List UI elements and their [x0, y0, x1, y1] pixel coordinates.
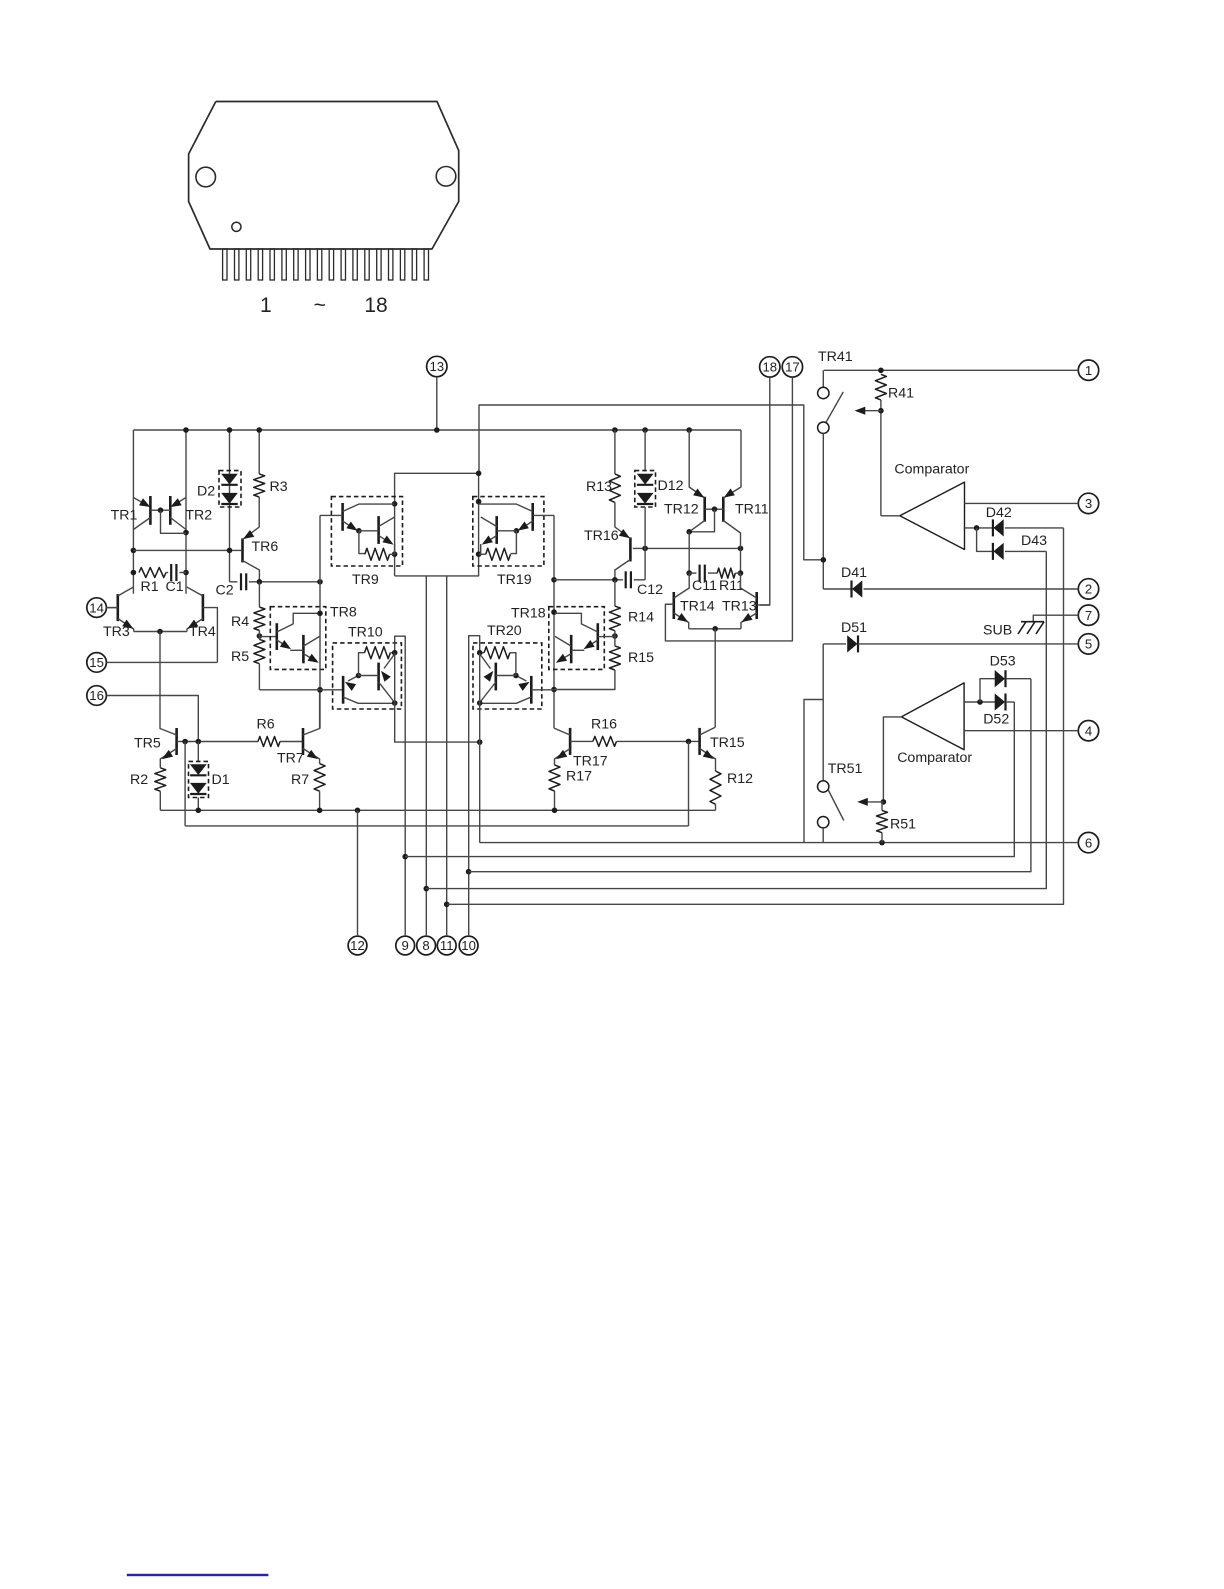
diode D52 — [964, 694, 1014, 711]
resistor R4 — [254, 607, 265, 631]
svg-text:5: 5 — [1085, 637, 1092, 652]
label TR5 — [134, 736, 161, 752]
svg-text:9: 9 — [402, 938, 409, 953]
svg-text:R4: R4 — [231, 614, 249, 630]
wire TR6 base line — [133, 549, 241, 551]
label TR1 — [111, 508, 138, 524]
transistor TR2 — [158, 496, 186, 533]
wire comparator2 input pin4 — [964, 730, 1078, 732]
svg-text:11: 11 — [440, 938, 454, 953]
label Comparator 2 — [897, 750, 972, 766]
resistor R5 — [254, 639, 265, 663]
resistor R15 — [609, 646, 620, 670]
svg-text:TR12: TR12 — [664, 502, 699, 518]
resistor R12 — [710, 771, 721, 810]
label D1 — [212, 772, 230, 788]
label R1 — [141, 579, 159, 595]
svg-text:6: 6 — [1085, 835, 1092, 850]
wire bottom rail — [160, 808, 715, 814]
label R17 — [566, 769, 592, 785]
resistor R1 — [139, 568, 166, 578]
svg-text:SUB: SUB — [983, 623, 1012, 639]
svg-text:17: 17 — [785, 360, 800, 375]
package index dot — [232, 222, 241, 231]
resistor R11 — [717, 568, 740, 578]
svg-text:TR10: TR10 — [348, 625, 383, 641]
wire R41 bottom node arrow — [856, 400, 900, 516]
wire pin6 riser jog — [804, 700, 823, 843]
label C12 — [637, 582, 663, 598]
label R16 — [591, 717, 617, 733]
svg-text:D12: D12 — [658, 478, 684, 494]
label C11 — [692, 578, 717, 594]
label Comparator 1 — [894, 462, 969, 478]
wire emitter tail TR3 TR4 — [134, 629, 187, 714]
diode D41 — [823, 581, 1078, 598]
svg-text:R14: R14 — [628, 610, 654, 626]
capacitor C12 — [554, 571, 631, 588]
op-amp comparator 2 — [901, 683, 964, 750]
svg-text:7: 7 — [1085, 608, 1092, 623]
label TR41 — [818, 349, 853, 365]
label R13 — [586, 479, 612, 495]
wire pin18 drop to TR13 base — [760, 377, 770, 605]
svg-text:R15: R15 — [628, 650, 654, 666]
wire pin7 to SUB ground — [1033, 615, 1078, 622]
switch TR41 — [818, 370, 844, 589]
resistor R51 — [877, 802, 888, 843]
wire TR11 collector drop — [738, 548, 744, 575]
wire comparator1 output pin3 — [965, 502, 1079, 504]
svg-text:R2: R2 — [130, 772, 148, 788]
svg-text:TR1: TR1 — [111, 508, 138, 524]
wire TR10 staple pin9 — [392, 636, 408, 936]
wire comparator2 apex to R51 — [858, 717, 901, 806]
transistor TR12 — [689, 430, 714, 532]
pin 10 — [459, 936, 478, 955]
wire pin16 lead — [106, 696, 198, 741]
diode D43 — [977, 528, 1047, 560]
pin 9 — [396, 936, 415, 955]
wire TR19-base column — [551, 515, 557, 728]
resistor R14 — [609, 580, 620, 631]
label R2 — [130, 772, 148, 788]
wire TR20 staple pin10 — [466, 636, 483, 936]
wire R7 to rail — [319, 791, 321, 810]
transistor TR3 — [106, 587, 133, 632]
resistor R2 — [155, 768, 166, 791]
pin 3 — [1078, 493, 1098, 513]
svg-text:1: 1 — [1085, 363, 1092, 378]
transistor TR7 — [303, 690, 320, 763]
svg-text:R3: R3 — [270, 479, 288, 495]
label TR12 — [664, 502, 699, 518]
svg-text:TR9: TR9 — [352, 572, 379, 588]
resistor R16 — [593, 736, 617, 746]
svg-text:2: 2 — [1085, 582, 1092, 597]
wire fanout D43 — [426, 551, 1047, 888]
pin 7 — [1078, 605, 1098, 625]
svg-text:C1: C1 — [166, 579, 184, 595]
svg-text:16: 16 — [89, 688, 104, 703]
svg-text:D52: D52 — [983, 712, 1009, 728]
package pin label 18 — [364, 294, 387, 317]
label TR17 — [573, 754, 608, 770]
pin 11 — [437, 936, 456, 955]
wire TR2 column — [183, 427, 189, 594]
transistor TR5 — [160, 714, 185, 768]
wire TR5 base node — [182, 739, 258, 745]
wire pin13 to bus — [434, 377, 440, 433]
svg-text:R1: R1 — [141, 579, 159, 595]
wire top supply bus — [133, 429, 741, 431]
svg-text:C11: C11 — [692, 578, 717, 594]
transistor pair TR9 — [320, 497, 403, 566]
pin 18 — [760, 357, 780, 377]
wire second rail y405 — [479, 405, 823, 560]
svg-text:R51: R51 — [890, 817, 916, 833]
pin 2 — [1078, 579, 1098, 599]
package mounting hole right — [436, 167, 456, 187]
capacitor C1 — [166, 564, 186, 581]
svg-text:D43: D43 — [1021, 533, 1047, 549]
svg-text:10: 10 — [461, 938, 476, 953]
transistor TR17 — [554, 728, 593, 765]
label R11 — [719, 578, 744, 594]
pin 17 — [782, 357, 802, 377]
wire pin6 rail — [480, 840, 1079, 846]
svg-text:TR2: TR2 — [185, 508, 212, 524]
label D51 — [841, 620, 867, 636]
pin 14 — [87, 598, 107, 618]
wire feedback left drop — [184, 742, 186, 826]
wire D1 column — [197, 742, 199, 762]
wire pin8 drop — [424, 576, 430, 936]
transistor pair TR10 — [333, 643, 402, 709]
label TR14 — [680, 599, 715, 615]
svg-text:TR14: TR14 — [680, 599, 715, 615]
resistor R13 — [609, 430, 620, 502]
wire pin12 drop — [357, 810, 359, 936]
diode D42 — [965, 519, 1064, 536]
label TR16 — [584, 528, 619, 544]
label D53 — [990, 654, 1016, 670]
label TR13 — [722, 599, 757, 615]
pin 1 — [1078, 360, 1098, 380]
label R41 — [888, 386, 914, 402]
label R51 — [890, 817, 916, 833]
wire C2 left lead — [230, 581, 238, 583]
svg-text:8: 8 — [422, 938, 429, 953]
ground SUB symbol — [1018, 622, 1044, 634]
pin 12 — [348, 936, 367, 955]
transistor pair TR18 — [549, 607, 605, 670]
resistor R3 — [254, 474, 265, 497]
resistor R41 — [875, 374, 886, 400]
svg-text:4: 4 — [1085, 723, 1092, 738]
label TR19 — [497, 572, 532, 588]
svg-text:18: 18 — [364, 294, 387, 317]
package mounting hole left — [196, 167, 216, 187]
svg-text:12: 12 — [350, 938, 365, 953]
capacitor C2 — [241, 573, 323, 590]
wire TR20 leg to pin6 line — [479, 653, 481, 843]
svg-text:TR15: TR15 — [710, 735, 745, 751]
pin 16 — [87, 686, 107, 706]
wire center block — [392, 471, 482, 576]
node R14 R15 junction — [598, 631, 618, 646]
label R14 — [628, 610, 654, 626]
transistor TR16 — [615, 502, 631, 579]
label D41 — [841, 565, 867, 581]
wire TR1 column — [131, 430, 137, 594]
wire R3 column top — [256, 427, 262, 474]
svg-text:14: 14 — [89, 600, 104, 615]
wire fanout D53 — [469, 679, 1031, 872]
wire TR15 base drop — [688, 741, 690, 826]
wire TR16 base line — [633, 546, 744, 552]
wire D12 bottom column — [634, 507, 645, 580]
wire R2 to rail — [159, 791, 161, 810]
svg-text:R7: R7 — [291, 772, 309, 788]
transistor pair TR20 — [473, 643, 542, 709]
label C2 — [216, 583, 234, 599]
capacitor C11 — [689, 565, 717, 582]
wire D1 to rail — [197, 798, 199, 811]
svg-text:TR41: TR41 — [818, 349, 853, 365]
svg-text:D41: D41 — [841, 565, 867, 581]
package pin label tilde — [314, 294, 326, 317]
label R12 — [727, 771, 753, 787]
wire R5 elbow to TR7 collector — [259, 664, 322, 693]
svg-text:13: 13 — [429, 359, 444, 374]
svg-text:TR4: TR4 — [189, 624, 216, 640]
svg-text:D2: D2 — [197, 484, 215, 500]
transistor TR11 — [686, 430, 741, 548]
label R6 — [257, 717, 275, 733]
transistor TR1 — [133, 496, 160, 530]
svg-text:TR51: TR51 — [828, 761, 863, 777]
diode pair D1 — [189, 761, 209, 797]
wire pin17 drop to TR14 base — [665, 377, 792, 641]
svg-text:TR8: TR8 — [330, 605, 357, 621]
pin 6 — [1078, 832, 1098, 852]
footer rule — [127, 1574, 269, 1576]
transistor TR6 — [243, 497, 260, 582]
switch TR51 — [818, 644, 844, 843]
wire TR9-base column — [317, 515, 323, 728]
package pins 1-18 — [223, 249, 429, 280]
label D52 — [983, 712, 1009, 728]
wire R4 top lead — [258, 582, 260, 607]
svg-text:TR17: TR17 — [573, 754, 608, 770]
svg-text:TR7: TR7 — [277, 751, 304, 767]
svg-text:TR19: TR19 — [497, 572, 532, 588]
transistor TR15 — [700, 727, 716, 771]
pin 4 — [1078, 721, 1098, 741]
node R4 R5 junction — [257, 631, 277, 640]
pin 5 — [1078, 634, 1098, 654]
wire TR8 base feed — [259, 689, 343, 691]
diode D53 — [980, 670, 1031, 702]
svg-text:R12: R12 — [727, 771, 753, 787]
wire TR20 base feed — [531, 689, 554, 691]
wire pin14 lead — [106, 607, 117, 609]
transistor pair TR8 — [270, 607, 326, 670]
label R7 — [291, 772, 309, 788]
svg-text:TR16: TR16 — [584, 528, 619, 544]
label TR20 — [487, 623, 522, 639]
svg-text:D42: D42 — [986, 505, 1012, 521]
wire emitter rail to TR15 — [714, 629, 716, 728]
label TR51 — [828, 761, 863, 777]
svg-text:TR6: TR6 — [252, 539, 279, 555]
svg-text:D53: D53 — [990, 654, 1016, 670]
transistor TR14 — [665, 573, 689, 629]
label C1 — [166, 579, 184, 595]
pin 8 — [417, 936, 436, 955]
transistor pair TR19 — [473, 497, 554, 566]
wire R15 elbow — [554, 670, 615, 690]
label TR15 — [710, 735, 745, 751]
transistor TR13 — [741, 573, 770, 629]
label TR10 — [348, 625, 383, 641]
svg-text:D51: D51 — [841, 620, 867, 636]
svg-text:~: ~ — [314, 294, 326, 317]
label TR11 — [735, 502, 769, 518]
svg-text:C12: C12 — [637, 582, 663, 598]
svg-text:R13: R13 — [586, 479, 612, 495]
package pin label 1 — [260, 294, 272, 317]
wire pin11 drop — [444, 576, 450, 936]
svg-text:Comparator: Comparator — [897, 750, 972, 766]
wire pin1 line — [824, 368, 1079, 374]
svg-text:TR5: TR5 — [134, 736, 161, 752]
wire R13 D12 tops — [612, 427, 692, 433]
label D43 — [1021, 533, 1047, 549]
svg-text:R5: R5 — [231, 649, 249, 665]
wire R6 to TR7 — [280, 741, 303, 743]
label R4 — [231, 614, 249, 630]
svg-text:3: 3 — [1085, 496, 1092, 511]
svg-text:R17: R17 — [566, 769, 592, 785]
wire TR10 leg down — [395, 653, 483, 745]
wire TR13 TR14 emitter rail — [689, 626, 741, 632]
wire pin15 lead — [106, 661, 217, 663]
svg-text:R6: R6 — [257, 717, 275, 733]
node D2 column — [227, 427, 233, 582]
resistor R6 — [258, 737, 280, 747]
IC package outline — [189, 102, 459, 250]
diode pair D2 — [219, 471, 241, 507]
svg-text:Comparator: Comparator — [894, 462, 969, 478]
label TR7 — [277, 751, 304, 767]
svg-text:TR3: TR3 — [103, 624, 130, 640]
label TR8 — [330, 605, 357, 621]
label R3 — [270, 479, 288, 495]
wire fanout D52 — [405, 702, 1014, 857]
op-amp comparator 1 — [900, 482, 965, 549]
svg-text:R16: R16 — [591, 717, 617, 733]
label TR4 — [189, 624, 216, 640]
wire R16 to TR15 — [617, 739, 700, 745]
label R15 — [628, 650, 654, 666]
svg-text:15: 15 — [89, 655, 104, 670]
transistor TR4 — [187, 587, 218, 662]
svg-text:D1: D1 — [212, 772, 230, 788]
label TR3 — [103, 624, 130, 640]
svg-text:TR11: TR11 — [735, 502, 769, 518]
diode D51 — [823, 635, 1078, 652]
diode pair D12 — [635, 430, 656, 507]
label TR6 — [252, 539, 279, 555]
resistor R17 — [549, 765, 560, 810]
label TR18 — [511, 606, 546, 622]
label D2 — [197, 484, 215, 500]
label D12 — [658, 478, 684, 494]
wire fanout D42 — [447, 528, 1064, 904]
svg-text:TR13: TR13 — [722, 599, 757, 615]
label R5 — [231, 649, 249, 665]
resistor R7 — [314, 764, 325, 792]
label TR2 — [185, 508, 212, 524]
svg-text:TR20: TR20 — [487, 623, 522, 639]
label TR9 — [352, 572, 379, 588]
wire feedback rail — [185, 825, 688, 827]
wire TR12 collector drop — [686, 532, 692, 576]
label SUB — [983, 623, 1012, 639]
svg-text:C2: C2 — [216, 583, 234, 599]
svg-text:18: 18 — [762, 360, 777, 375]
svg-text:1: 1 — [260, 294, 272, 317]
svg-text:R41: R41 — [888, 386, 914, 402]
label D42 — [986, 505, 1012, 521]
pin 13 — [427, 356, 447, 376]
pin 15 — [87, 653, 107, 673]
svg-text:TR18: TR18 — [511, 606, 546, 622]
